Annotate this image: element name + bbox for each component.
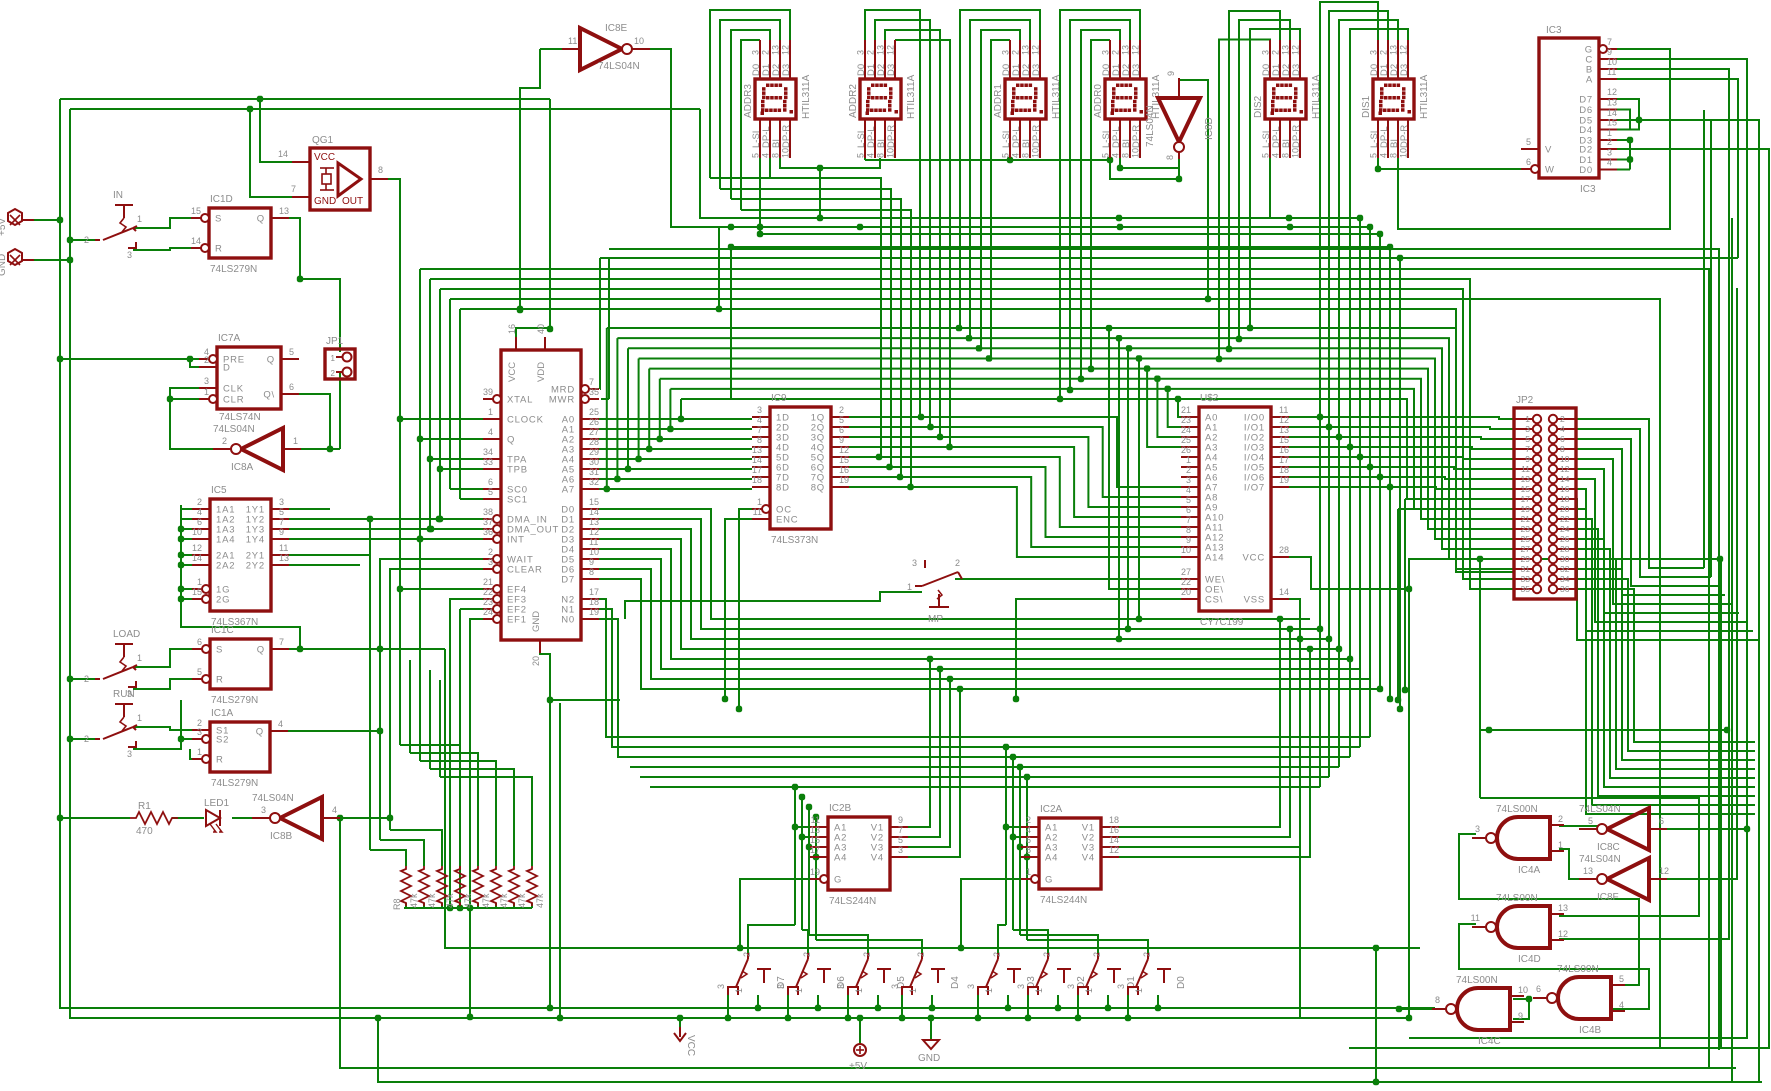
wire — [931, 995, 933, 1008]
svg-text:D3: D3 — [1131, 64, 1142, 76]
wire — [908, 679, 950, 847]
wire — [865, 10, 920, 417]
wire — [581, 559, 1360, 669]
wire — [390, 830, 442, 866]
junction — [1205, 296, 1211, 302]
svg-text:2: 2 — [1558, 814, 1563, 824]
svg-text:37: 37 — [483, 517, 493, 527]
svg-text:1: 1 — [197, 577, 202, 587]
wire — [430, 528, 483, 530]
wire — [649, 369, 1514, 529]
svg-text:2: 2 — [862, 952, 872, 957]
junction — [1744, 826, 1750, 832]
svg-text:2: 2 — [222, 436, 227, 446]
junction — [1010, 834, 1016, 840]
svg-text:Q: Q — [257, 645, 265, 656]
wire — [908, 669, 940, 837]
wire — [581, 468, 752, 470]
svg-text:28: 28 — [1560, 544, 1570, 554]
svg-text:2: 2 — [955, 558, 960, 568]
svg-text:ADDR3: ADDR3 — [743, 84, 754, 118]
svg-text:1: 1 — [1134, 988, 1144, 993]
svg-text:MWR: MWR — [549, 395, 575, 406]
wire — [460, 498, 483, 500]
svg-text:6: 6 — [488, 477, 493, 487]
junction — [1125, 626, 1131, 632]
wire — [300, 448, 340, 450]
junction — [57, 815, 63, 821]
svg-text:22: 22 — [1181, 577, 1191, 587]
junction — [1024, 774, 1030, 780]
junction — [1005, 1005, 1011, 1011]
svg-text:DP-R: DP-R — [1399, 125, 1410, 148]
latch IC9 74LS373N — [752, 393, 849, 546]
junction — [799, 794, 805, 800]
wire — [181, 505, 300, 649]
svg-text:12: 12 — [839, 445, 849, 455]
svg-text:3: 3 — [127, 749, 132, 759]
junction — [635, 456, 641, 462]
buffer IC2B 74LS244N — [810, 803, 908, 907]
junction — [457, 905, 463, 911]
wire — [1350, 29, 1408, 757]
junction — [799, 834, 805, 840]
wire — [340, 818, 1736, 1068]
wire — [1027, 995, 1029, 1018]
svg-text:13: 13 — [279, 206, 289, 216]
wire — [640, 776, 1329, 778]
switch D1 — [1066, 952, 1137, 995]
junction — [1377, 686, 1383, 692]
junction — [436, 516, 442, 522]
wire — [1576, 519, 1755, 805]
wire — [961, 879, 1019, 948]
svg-text:IC3: IC3 — [1580, 184, 1596, 195]
junction — [447, 905, 453, 911]
svg-text:24: 24 — [1560, 524, 1570, 534]
junction — [1107, 157, 1113, 163]
wire — [1654, 288, 1737, 879]
wire — [370, 518, 483, 520]
svg-text:SC1: SC1 — [507, 495, 528, 506]
junction — [1526, 996, 1532, 1002]
junction — [377, 728, 383, 734]
junction — [1406, 1015, 1412, 1021]
svg-text:39: 39 — [483, 387, 493, 397]
svg-text:QG1: QG1 — [312, 135, 334, 146]
wire — [1057, 995, 1059, 1008]
junction — [1125, 1015, 1131, 1021]
switch D2 — [1016, 952, 1087, 995]
wire — [1060, 10, 1140, 399]
wire — [181, 518, 199, 520]
wire — [1609, 120, 1759, 1082]
junction — [1367, 464, 1373, 470]
wire — [669, 389, 671, 429]
wire — [581, 569, 1370, 679]
wire — [817, 995, 819, 1008]
junction — [813, 814, 819, 820]
svg-text:38: 38 — [483, 507, 493, 517]
svg-text:IC5: IC5 — [211, 485, 227, 496]
switch D5 — [836, 952, 907, 995]
wire — [1020, 846, 1021, 848]
junction — [417, 536, 423, 542]
junction — [67, 676, 73, 682]
wire — [650, 49, 1370, 227]
wire — [1009, 158, 1011, 160]
svg-text:36: 36 — [483, 527, 493, 537]
svg-text:IC2A: IC2A — [1040, 804, 1063, 815]
junction — [646, 446, 652, 452]
wire — [405, 903, 407, 908]
wire — [616, 338, 618, 479]
svg-text:13: 13 — [1583, 866, 1593, 876]
svg-text:13: 13 — [589, 517, 599, 527]
svg-text:2: 2 — [204, 355, 209, 365]
wire — [423, 903, 425, 908]
svg-text:A: A — [1586, 75, 1593, 86]
svg-text:20: 20 — [1181, 587, 1191, 597]
wire — [740, 879, 808, 948]
svg-text:5: 5 — [1588, 816, 1593, 826]
svg-text:8: 8 — [771, 153, 781, 158]
junction — [1136, 355, 1142, 361]
wire — [1399, 1008, 1445, 1010]
wire — [780, 158, 880, 168]
svg-text:2: 2 — [866, 50, 876, 55]
display ADDR1 HTIL311A — [993, 40, 1062, 158]
svg-text:3: 3 — [1475, 824, 1480, 834]
svg-text:16: 16 — [839, 465, 849, 475]
wire — [70, 108, 700, 110]
resistor pack R12 — [473, 866, 491, 908]
svg-text:34: 34 — [483, 447, 493, 457]
svg-text:2: 2 — [84, 734, 89, 744]
svg-text:ADDR0: ADDR0 — [1093, 84, 1104, 118]
svg-text:15: 15 — [1279, 435, 1289, 445]
junction — [928, 1015, 934, 1021]
svg-text:DP-R: DP-R — [781, 125, 792, 148]
wire — [1289, 457, 1514, 459]
svg-text:19: 19 — [1521, 504, 1531, 514]
svg-text:Q: Q — [256, 727, 264, 738]
svg-text:CLK: CLK — [223, 384, 244, 395]
wire — [370, 850, 406, 866]
wire — [60, 817, 130, 819]
wire — [1359, 218, 1361, 747]
wire — [601, 398, 609, 400]
junction — [1317, 626, 1323, 632]
wire — [440, 468, 483, 470]
wire — [338, 372, 340, 449]
svg-text:1: 1 — [1034, 988, 1044, 993]
wire — [540, 640, 550, 1008]
svg-text:3: 3 — [488, 557, 493, 567]
junction — [1247, 325, 1253, 331]
svg-text:17: 17 — [810, 845, 820, 855]
wire — [1576, 559, 1755, 769]
junction — [1055, 1005, 1061, 1011]
svg-text:12: 12 — [1560, 464, 1570, 474]
wire — [172, 817, 204, 819]
svg-text:5: 5 — [856, 153, 866, 158]
wire — [430, 769, 514, 866]
switch LOAD — [84, 629, 142, 699]
wire — [865, 159, 1110, 161]
svg-text:1: 1 — [1186, 455, 1191, 465]
wire — [400, 418, 483, 420]
svg-text:10: 10 — [886, 148, 896, 158]
junction — [1078, 376, 1084, 382]
wire — [550, 699, 620, 701]
wire — [581, 549, 1350, 659]
svg-text:36: 36 — [1560, 584, 1570, 594]
inverter IC8E — [562, 23, 650, 72]
svg-text:Q: Q — [267, 355, 275, 366]
svg-text:9: 9 — [898, 815, 903, 825]
svg-text:5: 5 — [289, 347, 294, 357]
svg-text:R8: R8 — [392, 898, 402, 910]
junction — [1136, 616, 1142, 622]
svg-text:I/O7: I/O7 — [1244, 483, 1265, 494]
svg-text:12: 12 — [781, 45, 791, 55]
wire — [1120, 158, 1179, 168]
svg-text:16: 16 — [507, 324, 517, 334]
wire — [1289, 467, 1514, 469]
svg-text:14: 14 — [752, 455, 762, 465]
wire — [1409, 559, 1419, 589]
wire — [819, 168, 821, 218]
svg-text:DIS2: DIS2 — [1253, 95, 1264, 118]
svg-text:3: 3 — [1607, 148, 1612, 158]
switch D6 — [776, 952, 847, 995]
junction — [857, 224, 863, 230]
junction — [1017, 844, 1023, 850]
junction — [1075, 1015, 1081, 1021]
wire — [439, 680, 441, 777]
svg-text:2: 2 — [916, 952, 926, 957]
svg-text:13: 13 — [1521, 474, 1531, 484]
svg-text:3: 3 — [1369, 50, 1379, 55]
junction — [247, 106, 253, 112]
svg-text:74LS279N: 74LS279N — [210, 264, 257, 275]
svg-text:1: 1 — [794, 988, 804, 993]
svg-text:2: 2 — [1186, 465, 1191, 475]
svg-text:3: 3 — [1116, 984, 1126, 989]
wire — [281, 554, 370, 556]
wire — [1168, 389, 1199, 427]
VCC symbol — [674, 1027, 696, 1056]
junction — [297, 276, 303, 282]
junction — [757, 224, 763, 230]
svg-text:IC8B: IC8B — [270, 831, 293, 842]
svg-text:D0: D0 — [1579, 165, 1593, 176]
svg-text:ADDR1: ADDR1 — [993, 84, 1004, 118]
svg-text:74LS04N: 74LS04N — [252, 793, 294, 804]
svg-text:13: 13 — [1121, 45, 1131, 55]
wire — [1178, 152, 1180, 179]
svg-text:DP-R: DP-R — [886, 125, 897, 148]
wire — [1229, 11, 1280, 349]
svg-text:12: 12 — [1659, 866, 1669, 876]
connector JP2 — [1514, 395, 1576, 599]
wire — [1404, 499, 1406, 690]
wire — [970, 20, 1030, 339]
wire — [617, 338, 1514, 559]
junction — [1357, 215, 1363, 221]
wire — [864, 158, 866, 160]
wire — [1480, 729, 1727, 731]
junction — [1226, 346, 1232, 352]
wire — [181, 538, 199, 540]
svg-text:IN: IN — [113, 190, 123, 201]
inverter IC8F — [1579, 854, 1669, 903]
oscillator QG1 — [278, 135, 388, 210]
svg-text:25: 25 — [589, 407, 599, 417]
wire — [700, 109, 1360, 218]
junction — [1326, 636, 1332, 642]
junction — [817, 165, 823, 171]
svg-text:A4: A4 — [1045, 853, 1058, 864]
wire — [1731, 218, 1733, 1082]
wire — [609, 249, 1719, 1050]
svg-text:74LS244N: 74LS244N — [829, 896, 876, 907]
wire — [459, 309, 461, 499]
wire — [281, 538, 420, 540]
wire — [1013, 930, 1048, 953]
wire — [600, 257, 1738, 259]
wire — [849, 477, 1199, 547]
nand IC4A 74LS00N — [1472, 804, 1564, 876]
svg-text:4: 4 — [332, 805, 337, 815]
wire — [625, 592, 922, 619]
wire — [420, 538, 483, 540]
svg-text:LED1: LED1 — [204, 798, 229, 809]
junction — [958, 945, 964, 951]
svg-text:DP-R: DP-R — [1131, 125, 1142, 148]
wire — [720, 189, 891, 467]
svg-text:IC8C: IC8C — [1597, 842, 1620, 853]
wire — [281, 508, 330, 510]
junction — [1317, 414, 1323, 420]
wire — [998, 925, 1006, 953]
junction — [1287, 626, 1293, 632]
junction — [1336, 646, 1342, 652]
svg-text:47k: 47k — [427, 893, 437, 908]
wire — [1399, 258, 1401, 709]
svg-text:IC8A: IC8A — [231, 462, 254, 473]
junction — [467, 1014, 473, 1020]
junction — [178, 562, 184, 568]
wire — [420, 269, 1709, 1069]
svg-text:ENC: ENC — [776, 515, 798, 526]
svg-text:10: 10 — [192, 527, 202, 537]
wire — [1405, 498, 1514, 500]
svg-text:12: 12 — [589, 527, 599, 537]
svg-text:47k: 47k — [517, 893, 527, 908]
svg-text:14: 14 — [1279, 587, 1289, 597]
svg-text:74LS04N: 74LS04N — [1579, 854, 1621, 865]
svg-text:12: 12 — [1607, 87, 1617, 97]
wire — [470, 619, 483, 1017]
svg-text:G: G — [834, 875, 842, 886]
wire — [400, 588, 483, 590]
junction — [897, 474, 903, 480]
wire — [1289, 487, 1514, 489]
svg-text:4: 4 — [278, 719, 283, 729]
wire — [34, 219, 60, 221]
wire — [250, 109, 292, 197]
svg-text:47k: 47k — [463, 893, 473, 908]
wire — [449, 299, 451, 489]
wire — [1378, 168, 1531, 170]
wire — [607, 328, 1514, 569]
junction — [327, 446, 333, 452]
svg-text:29: 29 — [589, 447, 599, 457]
wire — [460, 309, 1514, 572]
svg-text:VCC: VCC — [1243, 553, 1265, 564]
wire — [802, 930, 808, 953]
junction — [1297, 636, 1303, 642]
svg-text:6: 6 — [289, 382, 294, 392]
resistor pack R14 — [509, 866, 527, 908]
svg-text:IC3: IC3 — [1546, 25, 1562, 36]
wire — [731, 30, 770, 199]
junction — [1373, 945, 1379, 951]
svg-text:27: 27 — [1521, 544, 1531, 554]
junction — [1397, 706, 1403, 712]
wire — [1013, 836, 1021, 838]
svg-text:12: 12 — [886, 45, 896, 55]
wire — [1576, 479, 1746, 622]
wire — [1398, 49, 1670, 229]
svg-text:1: 1 — [1084, 988, 1094, 993]
wire — [960, 10, 1040, 328]
junction — [1176, 176, 1182, 182]
wire — [281, 730, 380, 732]
wire — [581, 579, 1380, 689]
svg-text:74LS00N: 74LS00N — [1557, 964, 1599, 975]
svg-text:8Q: 8Q — [811, 483, 825, 494]
svg-text:74LS04N: 74LS04N — [598, 61, 640, 72]
svg-text:19: 19 — [810, 867, 820, 877]
svg-text:15: 15 — [1607, 118, 1617, 128]
svg-text:1: 1 — [137, 214, 142, 224]
svg-text:47k: 47k — [409, 893, 419, 908]
svg-text:3: 3 — [1186, 475, 1191, 485]
svg-text:D2: D2 — [1579, 145, 1593, 156]
svg-text:5: 5 — [1526, 137, 1531, 147]
svg-text:+5V: +5V — [849, 1061, 867, 1072]
svg-text:13: 13 — [1281, 45, 1291, 55]
junction — [1326, 424, 1332, 430]
wire — [581, 609, 1360, 747]
svg-text:13: 13 — [771, 45, 781, 55]
svg-text:2: 2 — [1560, 414, 1565, 424]
junction — [1375, 166, 1381, 172]
svg-text:15: 15 — [191, 206, 201, 216]
wire — [759, 158, 761, 234]
svg-text:3: 3 — [1066, 984, 1076, 989]
wire — [849, 457, 1199, 527]
wire — [1576, 419, 1704, 568]
svg-text:16: 16 — [1560, 484, 1570, 494]
svg-text:14: 14 — [589, 507, 599, 517]
wire — [748, 925, 795, 953]
wire — [1576, 469, 1739, 613]
svg-text:13: 13 — [279, 553, 289, 563]
